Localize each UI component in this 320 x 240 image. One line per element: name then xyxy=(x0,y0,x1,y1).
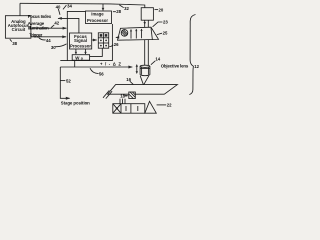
box focus signal processor 30 xyxy=(70,33,92,49)
objective motion double arrow xyxy=(136,64,138,74)
label 20 leader xyxy=(155,9,159,11)
stage support ticks xyxy=(120,99,125,104)
wire stub W box to dZ line xyxy=(74,61,76,67)
svg-text:Illumination: Illumination xyxy=(28,25,49,30)
svg-text:23: 23 xyxy=(163,20,168,25)
svg-text:34: 34 xyxy=(67,4,72,9)
svg-text:16: 16 xyxy=(126,77,131,82)
label 25 leader xyxy=(157,33,162,34)
wire rail to analog autofocus circuit xyxy=(19,3,21,15)
specimen sensor 18 hatched xyxy=(129,92,136,99)
arrowhead focus index xyxy=(58,17,62,20)
label 52 leader xyxy=(60,80,65,82)
arrowhead +/-dZ xyxy=(128,66,132,69)
svg-text:Objective lens: Objective lens xyxy=(161,64,189,69)
label 16 leader xyxy=(130,81,134,84)
svg-text:42: 42 xyxy=(54,20,59,25)
svg-text:28: 28 xyxy=(116,9,121,14)
svg-text:56: 56 xyxy=(99,71,104,76)
svg-text:52: 52 xyxy=(66,79,71,84)
arrowhead fsp to detector xyxy=(93,39,97,42)
label 32 leader xyxy=(119,5,123,8)
wire detector bottom to W box xyxy=(90,48,103,56)
box focus signal processor assembly outer 30 xyxy=(60,11,112,60)
label 22 leader xyxy=(157,104,167,106)
svg-text:38: 38 xyxy=(12,41,17,46)
svg-text:22: 22 xyxy=(167,102,172,107)
svg-text:Processor: Processor xyxy=(87,18,108,23)
beam splitter element xyxy=(135,29,137,38)
arrowhead into detector xyxy=(115,36,119,39)
box analog autofocus circuit 38 xyxy=(5,16,31,39)
light cone to stage xyxy=(140,76,145,90)
wire top rail 34 xyxy=(20,3,145,7)
arrowhead average illumination xyxy=(63,27,67,30)
svg-text:25: 25 xyxy=(163,30,168,35)
svg-text:Trigger: Trigger xyxy=(29,32,42,37)
wire fsp to W box arrows xyxy=(75,49,77,54)
wire stage position 52 xyxy=(60,67,69,98)
svg-text:26: 26 xyxy=(114,42,119,47)
label 38 leader xyxy=(10,39,12,41)
svg-text:18: 18 xyxy=(120,93,125,98)
svg-text:44: 44 xyxy=(46,38,51,43)
brace objective lens group 12 xyxy=(189,15,195,95)
box image processor 28 xyxy=(86,11,112,24)
svg-text:30: 30 xyxy=(51,45,56,50)
arrowhead trigger xyxy=(62,35,66,38)
svg-text:14: 14 xyxy=(155,56,160,61)
svg-text:20: 20 xyxy=(159,7,164,12)
stage left hatch xyxy=(103,90,112,98)
svg-text:Circuit: Circuit xyxy=(12,27,26,32)
beam splitter wedge facet xyxy=(151,28,152,40)
objective lens barrel 14 xyxy=(140,65,150,75)
wire fsp to detector array xyxy=(92,39,97,41)
label 56 leader xyxy=(90,68,99,73)
wire rail drop into image processor xyxy=(102,4,104,10)
svg-text:Focus Index: Focus Index xyxy=(28,14,52,19)
label 28 leader xyxy=(113,11,116,13)
arrowhead camera light xyxy=(144,22,146,25)
wire +/-dZ 56 xyxy=(60,66,132,68)
svg-text:Image: Image xyxy=(91,12,104,17)
label 30 leader xyxy=(55,44,66,47)
label 44 leader xyxy=(39,37,46,40)
svg-text:12: 12 xyxy=(194,64,199,69)
arrowhead stage position xyxy=(66,97,70,100)
beam splitter assembly 23 25 xyxy=(118,27,159,40)
label 40 leader xyxy=(58,9,60,15)
label 34 leader xyxy=(63,5,66,9)
beam splitter element xyxy=(130,30,132,39)
svg-text:40: 40 xyxy=(56,4,61,9)
wire camera to beam splitter xyxy=(144,20,146,28)
wire trigger 44 xyxy=(31,36,66,38)
box W0 window register xyxy=(72,55,89,61)
stage 16 xyxy=(108,85,178,95)
actuator box 22 xyxy=(113,104,145,114)
label 18 arrow xyxy=(125,95,128,97)
svg-text:32: 32 xyxy=(124,6,129,11)
box camera 20 xyxy=(141,8,153,21)
svg-text:Stage position: Stage position xyxy=(61,100,90,105)
lens circle hatched xyxy=(121,30,128,37)
wire average illumination 42 xyxy=(31,27,67,29)
label 26 leader xyxy=(109,45,113,47)
support wedge triangle xyxy=(145,101,157,113)
wire focus index 40 xyxy=(58,18,79,33)
svg-text:+/-ΔZ: +/-ΔZ xyxy=(100,61,121,66)
detector array 26 xyxy=(98,33,108,48)
label 14 leader xyxy=(151,61,155,65)
label 42 leader xyxy=(51,25,54,28)
wire light path down to objective xyxy=(144,40,146,66)
beam splitter element xyxy=(141,29,143,38)
label 23 leader xyxy=(153,22,163,27)
arrowhead into image processor xyxy=(102,8,105,11)
svg-text:Processor: Processor xyxy=(70,43,91,48)
wire beam splitter to detector light xyxy=(116,36,118,38)
